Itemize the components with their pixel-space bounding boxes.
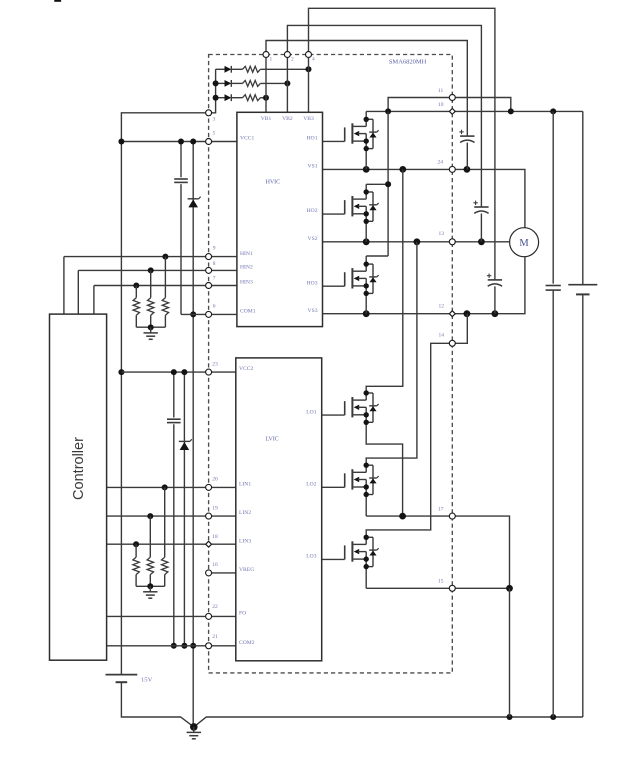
terminal pin 16 bbox=[206, 570, 212, 576]
junction HIN1 pulldown bbox=[162, 254, 168, 260]
battery B2 DC bus bbox=[568, 284, 597, 286]
terminal pin 10 bbox=[449, 108, 455, 114]
wire FET5 source to pin17 line bbox=[365, 495, 367, 517]
wire bootstrap chain 3 bbox=[216, 97, 225, 99]
svg-text:14: 14 bbox=[439, 333, 445, 339]
svg-text:LIN3: LIN3 bbox=[239, 538, 251, 544]
transistor Q5 (V low-side) internal junctions bbox=[364, 463, 369, 468]
junction chain 1 to VB wire bbox=[306, 66, 312, 72]
svg-text:COM2: COM2 bbox=[239, 640, 255, 646]
svg-text:9: 9 bbox=[213, 246, 216, 252]
junction ZD2 top bbox=[181, 369, 187, 375]
svg-text:LO1: LO1 bbox=[306, 409, 316, 415]
terminal pin 20 bbox=[206, 484, 212, 490]
junction ZD2 bottom bbox=[181, 643, 187, 649]
terminal pin 5 bbox=[206, 139, 212, 145]
capacitor C6 bootstrap W bbox=[488, 279, 502, 281]
terminal pin 6 bbox=[206, 311, 212, 317]
svg-text:FO: FO bbox=[239, 611, 246, 617]
junction bottom rail / DC link cap bbox=[550, 714, 556, 720]
wire pin5 VCC1 line bbox=[121, 141, 236, 143]
svg-text:23: 23 bbox=[212, 361, 218, 367]
junction HIN3 pulldown bbox=[133, 283, 139, 289]
wire pin11 jog to P bus bbox=[388, 98, 511, 112]
junction P bus left tap bbox=[385, 108, 391, 114]
capacitor C2 bbox=[167, 418, 181, 420]
transistor Q2 (V high-side) internal junctions bbox=[364, 189, 369, 194]
wire COM1 pin6 line bbox=[181, 313, 237, 315]
resistor R9 bbox=[135, 544, 137, 557]
terminal pin 1 bbox=[263, 52, 269, 58]
svg-text:LIN1: LIN1 bbox=[239, 482, 251, 488]
ground for LIN resistors bbox=[149, 586, 151, 592]
transistor Q3 (W high-side) internal junctions bbox=[364, 261, 369, 266]
junction chain 2 to VB wire bbox=[284, 80, 290, 86]
terminal pin 21 bbox=[206, 643, 212, 649]
svg-text:VS1: VS1 bbox=[308, 164, 318, 170]
transistor Q5 (V low-side) body diode bbox=[366, 464, 373, 466]
svg-text:VCC1: VCC1 bbox=[240, 136, 255, 142]
svg-text:HO2: HO2 bbox=[307, 208, 318, 214]
svg-text:15: 15 bbox=[438, 579, 444, 585]
wire main DC battery branch bbox=[582, 111, 584, 284]
ground main bbox=[193, 727, 195, 733]
resistor R7 bbox=[164, 487, 166, 557]
transistor Q4 (U low-side) body bbox=[351, 397, 353, 417]
junction VS2/low-side drain tap bbox=[414, 238, 421, 245]
transistor Q6 (W low-side) gate lead bbox=[322, 558, 345, 560]
terminal pin 4 bbox=[306, 52, 312, 58]
svg-text:LIN2: LIN2 bbox=[239, 510, 251, 516]
wire VS2 rail (V phase) bbox=[323, 241, 510, 243]
controller box bbox=[50, 314, 107, 660]
wire bootstrap chain 2 bbox=[216, 82, 225, 84]
svg-text:LVIC: LVIC bbox=[265, 436, 278, 443]
wire capacitor C2 branch bbox=[173, 372, 175, 417]
junction P bus DC cap tap bbox=[550, 108, 556, 114]
wire FET6 source to pin15 line bbox=[365, 567, 367, 589]
capacitor C7 DC link bbox=[546, 285, 561, 287]
svg-text:SMA6820MH: SMA6820MH bbox=[389, 59, 427, 66]
wire resistor bank bus bbox=[136, 326, 165, 328]
wire VB2: pin2 up over to bootstrap cap C5 bbox=[287, 25, 481, 207]
wire COM2 pin21 line bbox=[107, 645, 236, 647]
transistor Q6 (W low-side) internal junctions bbox=[364, 535, 369, 540]
wire VS1 rail (U phase) bbox=[323, 169, 525, 227]
junction HIN2 pulldown bbox=[148, 267, 154, 273]
transistor Q6 (W low-side) body diode bbox=[366, 536, 373, 538]
junction P bus pin11 tap bbox=[508, 108, 514, 114]
transistor Q4 (U low-side) gate lead bbox=[322, 414, 345, 416]
wire battery to ground rail bbox=[121, 682, 193, 727]
terminal pin 7 bbox=[206, 283, 212, 289]
junction VS1/FET1 source bbox=[363, 166, 370, 173]
wire LIN resistor bank bus bbox=[136, 585, 165, 587]
wire pin15 N line bbox=[366, 587, 509, 589]
wire zener/COM line from VCC1 to ground bbox=[192, 142, 194, 199]
transistor Q5 (V low-side) gate lead bbox=[322, 486, 345, 488]
wire VB1: pin1 up over to bootstrap cap C4 bbox=[266, 41, 467, 137]
svg-text:4: 4 bbox=[312, 57, 315, 63]
terminal pin 17 bbox=[449, 513, 455, 519]
junction chain bus 2 bbox=[213, 80, 219, 86]
terminal pin 15 bbox=[449, 585, 455, 591]
wire HIN3 from controller bbox=[94, 285, 237, 287]
wire DC link cap branch bbox=[552, 111, 554, 283]
wire VCC2 pin23 line bbox=[121, 371, 235, 373]
junction C2 bottom bbox=[171, 643, 177, 649]
svg-text:M: M bbox=[519, 238, 529, 249]
junction LIN3 pulldown bbox=[133, 541, 139, 547]
junction VS1/low-side drain tap bbox=[399, 166, 406, 173]
zener diode ZD1 bbox=[188, 198, 199, 200]
svg-text:21: 21 bbox=[212, 634, 218, 640]
svg-text:VS2: VS2 bbox=[308, 236, 318, 242]
diode D3 bbox=[225, 94, 232, 101]
transistor Q3 (W high-side) body bbox=[351, 268, 353, 288]
junction VS3/FET3 source bbox=[363, 310, 370, 317]
svg-text:VS3: VS3 bbox=[308, 308, 318, 314]
wire N down to bottom rail bbox=[509, 588, 511, 717]
resistor R3 bbox=[243, 95, 261, 101]
wire P bus rail bbox=[366, 110, 583, 112]
motor M bbox=[510, 228, 539, 257]
svg-text:13: 13 bbox=[439, 231, 445, 237]
terminal pin 2 bbox=[284, 52, 290, 58]
svg-text:VB1: VB1 bbox=[261, 116, 272, 122]
terminal pin 12 bbox=[449, 311, 455, 317]
wire LIN3 from controller bbox=[107, 543, 236, 545]
svg-text:24: 24 bbox=[438, 160, 444, 166]
svg-text:HIN1: HIN1 bbox=[240, 251, 253, 257]
svg-text:HO3: HO3 bbox=[307, 280, 318, 286]
terminal pin 23 bbox=[206, 369, 212, 375]
svg-text:19: 19 bbox=[212, 505, 218, 511]
svg-text:15V: 15V bbox=[141, 676, 153, 683]
svg-text:VREG: VREG bbox=[239, 567, 254, 573]
wire FET1 drain to P bus bbox=[365, 111, 367, 119]
svg-text:17: 17 bbox=[438, 506, 444, 512]
wire VREG pin16 stub bbox=[212, 572, 236, 574]
resistor R5 bbox=[150, 270, 152, 297]
svg-text:1: 1 bbox=[270, 57, 273, 63]
svg-text:LO3: LO3 bbox=[306, 554, 316, 560]
svg-text:VB3: VB3 bbox=[303, 116, 314, 122]
transistor Q2 (V high-side) body bbox=[351, 196, 353, 216]
wire FET3 source to VS3 bbox=[365, 293, 367, 313]
junction VCC rail / VCC2 bbox=[118, 369, 124, 375]
resistor R1 bbox=[243, 66, 261, 72]
svg-text:HIN2: HIN2 bbox=[240, 265, 253, 271]
junction chain bus 3 bbox=[213, 95, 219, 101]
junction COM2 node on down line bbox=[190, 643, 196, 649]
junction ZD1 top bbox=[190, 139, 196, 145]
ground for HIN resistors bbox=[150, 327, 152, 333]
terminal pin 3 bbox=[206, 110, 212, 116]
wire FET4 source down to N node bbox=[366, 422, 402, 516]
svg-text:18: 18 bbox=[212, 534, 218, 540]
diode D2 bbox=[225, 80, 232, 87]
resistor R8 bbox=[149, 516, 151, 557]
wire V phase to FET5 drain bbox=[366, 242, 417, 465]
svg-text:7: 7 bbox=[213, 275, 216, 281]
wire pin17 jog to pin15 line bbox=[456, 516, 510, 588]
wire VS3 rail (W phase) bbox=[323, 257, 525, 314]
svg-text:20: 20 bbox=[212, 477, 218, 483]
svg-text:6: 6 bbox=[213, 303, 216, 309]
transistor Q6 (W low-side) body bbox=[351, 541, 353, 561]
svg-text:22: 22 bbox=[212, 604, 218, 610]
wire pin14 to W phase bbox=[452, 314, 467, 344]
terminal pin 13 bbox=[449, 239, 455, 245]
junction main ground bbox=[190, 723, 198, 731]
terminal pin 9 bbox=[206, 254, 212, 260]
svg-text:COM1: COM1 bbox=[240, 309, 256, 315]
capacitor C5 bootstrap V bbox=[474, 206, 488, 208]
svg-text:Controller: Controller bbox=[71, 437, 87, 500]
dashed module outline SMA6820MH bbox=[209, 55, 453, 673]
wire pin17 N line bbox=[366, 515, 452, 517]
battery B1 15V bbox=[106, 674, 138, 676]
wire P bus tap down to FET2/FET3 drains bbox=[387, 111, 389, 256]
wire HIN2 from controller bbox=[78, 269, 237, 271]
junction bottom rail / N line bbox=[507, 714, 513, 720]
wire VB3: pin4 up over to bootstrap cap C6 bbox=[309, 8, 495, 280]
IC U2 LVIC box bbox=[236, 358, 322, 661]
junction chain 3 to VB wire bbox=[263, 95, 269, 101]
terminal pin 18 bbox=[206, 541, 212, 547]
wire LIN1 from controller bbox=[107, 486, 236, 488]
svg-text:11: 11 bbox=[438, 88, 444, 94]
junction resistor bank bbox=[148, 324, 154, 330]
wire VCC 15V rail: pin3 left and down to battery bbox=[121, 113, 205, 675]
junction C2 top bbox=[171, 369, 177, 375]
terminal pin 11 bbox=[449, 95, 455, 101]
transistor Q2 (V high-side) gate lead bbox=[323, 213, 345, 215]
wire U phase to FET4 drain bbox=[366, 169, 403, 393]
junction VS3/pin14 tap bbox=[464, 310, 471, 317]
junction N node bbox=[399, 513, 406, 520]
svg-text:12: 12 bbox=[439, 304, 445, 310]
svg-text:HO1: HO1 bbox=[307, 136, 318, 142]
svg-text:2: 2 bbox=[291, 57, 294, 63]
terminal pin 14 bbox=[449, 340, 455, 346]
transistor Q5 (V low-side) body bbox=[351, 469, 353, 489]
cropped text artifact at top edge bbox=[54, 0, 61, 2]
wire chain bus from pin 3 bbox=[209, 69, 216, 113]
terminal pin 24 bbox=[449, 166, 455, 172]
resistor R4 bbox=[164, 257, 166, 298]
transistor Q1 (U high-side) internal junctions bbox=[364, 117, 369, 122]
junction VCC rail / VCC1 bbox=[118, 139, 124, 145]
svg-text:VCC2: VCC2 bbox=[239, 366, 254, 372]
wire capacitor C1 branch bbox=[180, 142, 182, 178]
wire LIN2 from controller bbox=[107, 515, 236, 517]
svg-text:5: 5 bbox=[213, 130, 216, 136]
junction VS2/FET2 source bbox=[363, 238, 370, 245]
transistor Q1 (U high-side) body diode bbox=[366, 118, 373, 120]
svg-text:LO2: LO2 bbox=[306, 481, 316, 487]
junction VS3/bootstrap cap C6 bbox=[492, 310, 499, 317]
resistor R2 bbox=[243, 80, 261, 86]
zener diode ZD2 bbox=[179, 440, 190, 442]
junction LIN resistor bank bbox=[147, 583, 153, 589]
transistor Q3 (W high-side) body diode bbox=[366, 263, 373, 265]
wire zener ZD2 branch bbox=[183, 372, 185, 441]
wire FO pin22 line bbox=[107, 615, 236, 617]
svg-text:16: 16 bbox=[212, 562, 218, 568]
junction FET2 drain tap bbox=[385, 181, 391, 187]
svg-text:3: 3 bbox=[213, 116, 216, 122]
transistor Q4 (U low-side) internal junctions bbox=[364, 390, 369, 395]
junction pin15/pin17 N tie bbox=[506, 585, 513, 592]
junction VS2/bootstrap cap C5 bbox=[478, 238, 485, 245]
wire FET2 source to VS2 bbox=[365, 221, 367, 242]
junction LIN1 pulldown bbox=[162, 484, 168, 490]
wire bootstrap chain 1 bbox=[216, 68, 225, 70]
terminal pin 22 bbox=[206, 613, 212, 619]
transistor Q3 (W high-side) gate lead bbox=[323, 285, 345, 287]
diode D1 bbox=[225, 66, 232, 73]
junction C1 top bbox=[178, 139, 184, 145]
transistor Q2 (V high-side) body diode bbox=[366, 191, 373, 193]
svg-text:VB2: VB2 bbox=[282, 116, 293, 122]
wire bottom N/ground rail bbox=[194, 717, 583, 727]
wire pin14 down to FET6 drain bbox=[366, 343, 449, 537]
transistor Q4 (U low-side) body diode bbox=[366, 392, 373, 394]
svg-text:HVIC: HVIC bbox=[266, 178, 281, 185]
svg-text:8: 8 bbox=[213, 261, 216, 267]
junction COM1 node bbox=[190, 311, 196, 317]
svg-text:10: 10 bbox=[438, 102, 444, 108]
junction VS1/bootstrap cap C4 bbox=[464, 166, 471, 173]
transistor Q1 (U high-side) gate lead bbox=[323, 140, 345, 142]
svg-text:HIN3: HIN3 bbox=[240, 280, 253, 286]
terminal pin 8 bbox=[206, 267, 212, 273]
terminal pin 19 bbox=[206, 513, 212, 519]
capacitor C4 bootstrap U bbox=[460, 135, 474, 137]
transistor Q1 (U high-side) body bbox=[351, 123, 353, 143]
capacitor C1 bbox=[174, 178, 188, 180]
wire FET1 source to VS1 bbox=[365, 149, 367, 170]
resistor R6 bbox=[135, 286, 137, 298]
junction LIN2 pulldown bbox=[147, 513, 153, 519]
wire HIN1 from controller bbox=[64, 256, 237, 258]
op-amp/IC U1 HVIC box bbox=[237, 112, 323, 326]
